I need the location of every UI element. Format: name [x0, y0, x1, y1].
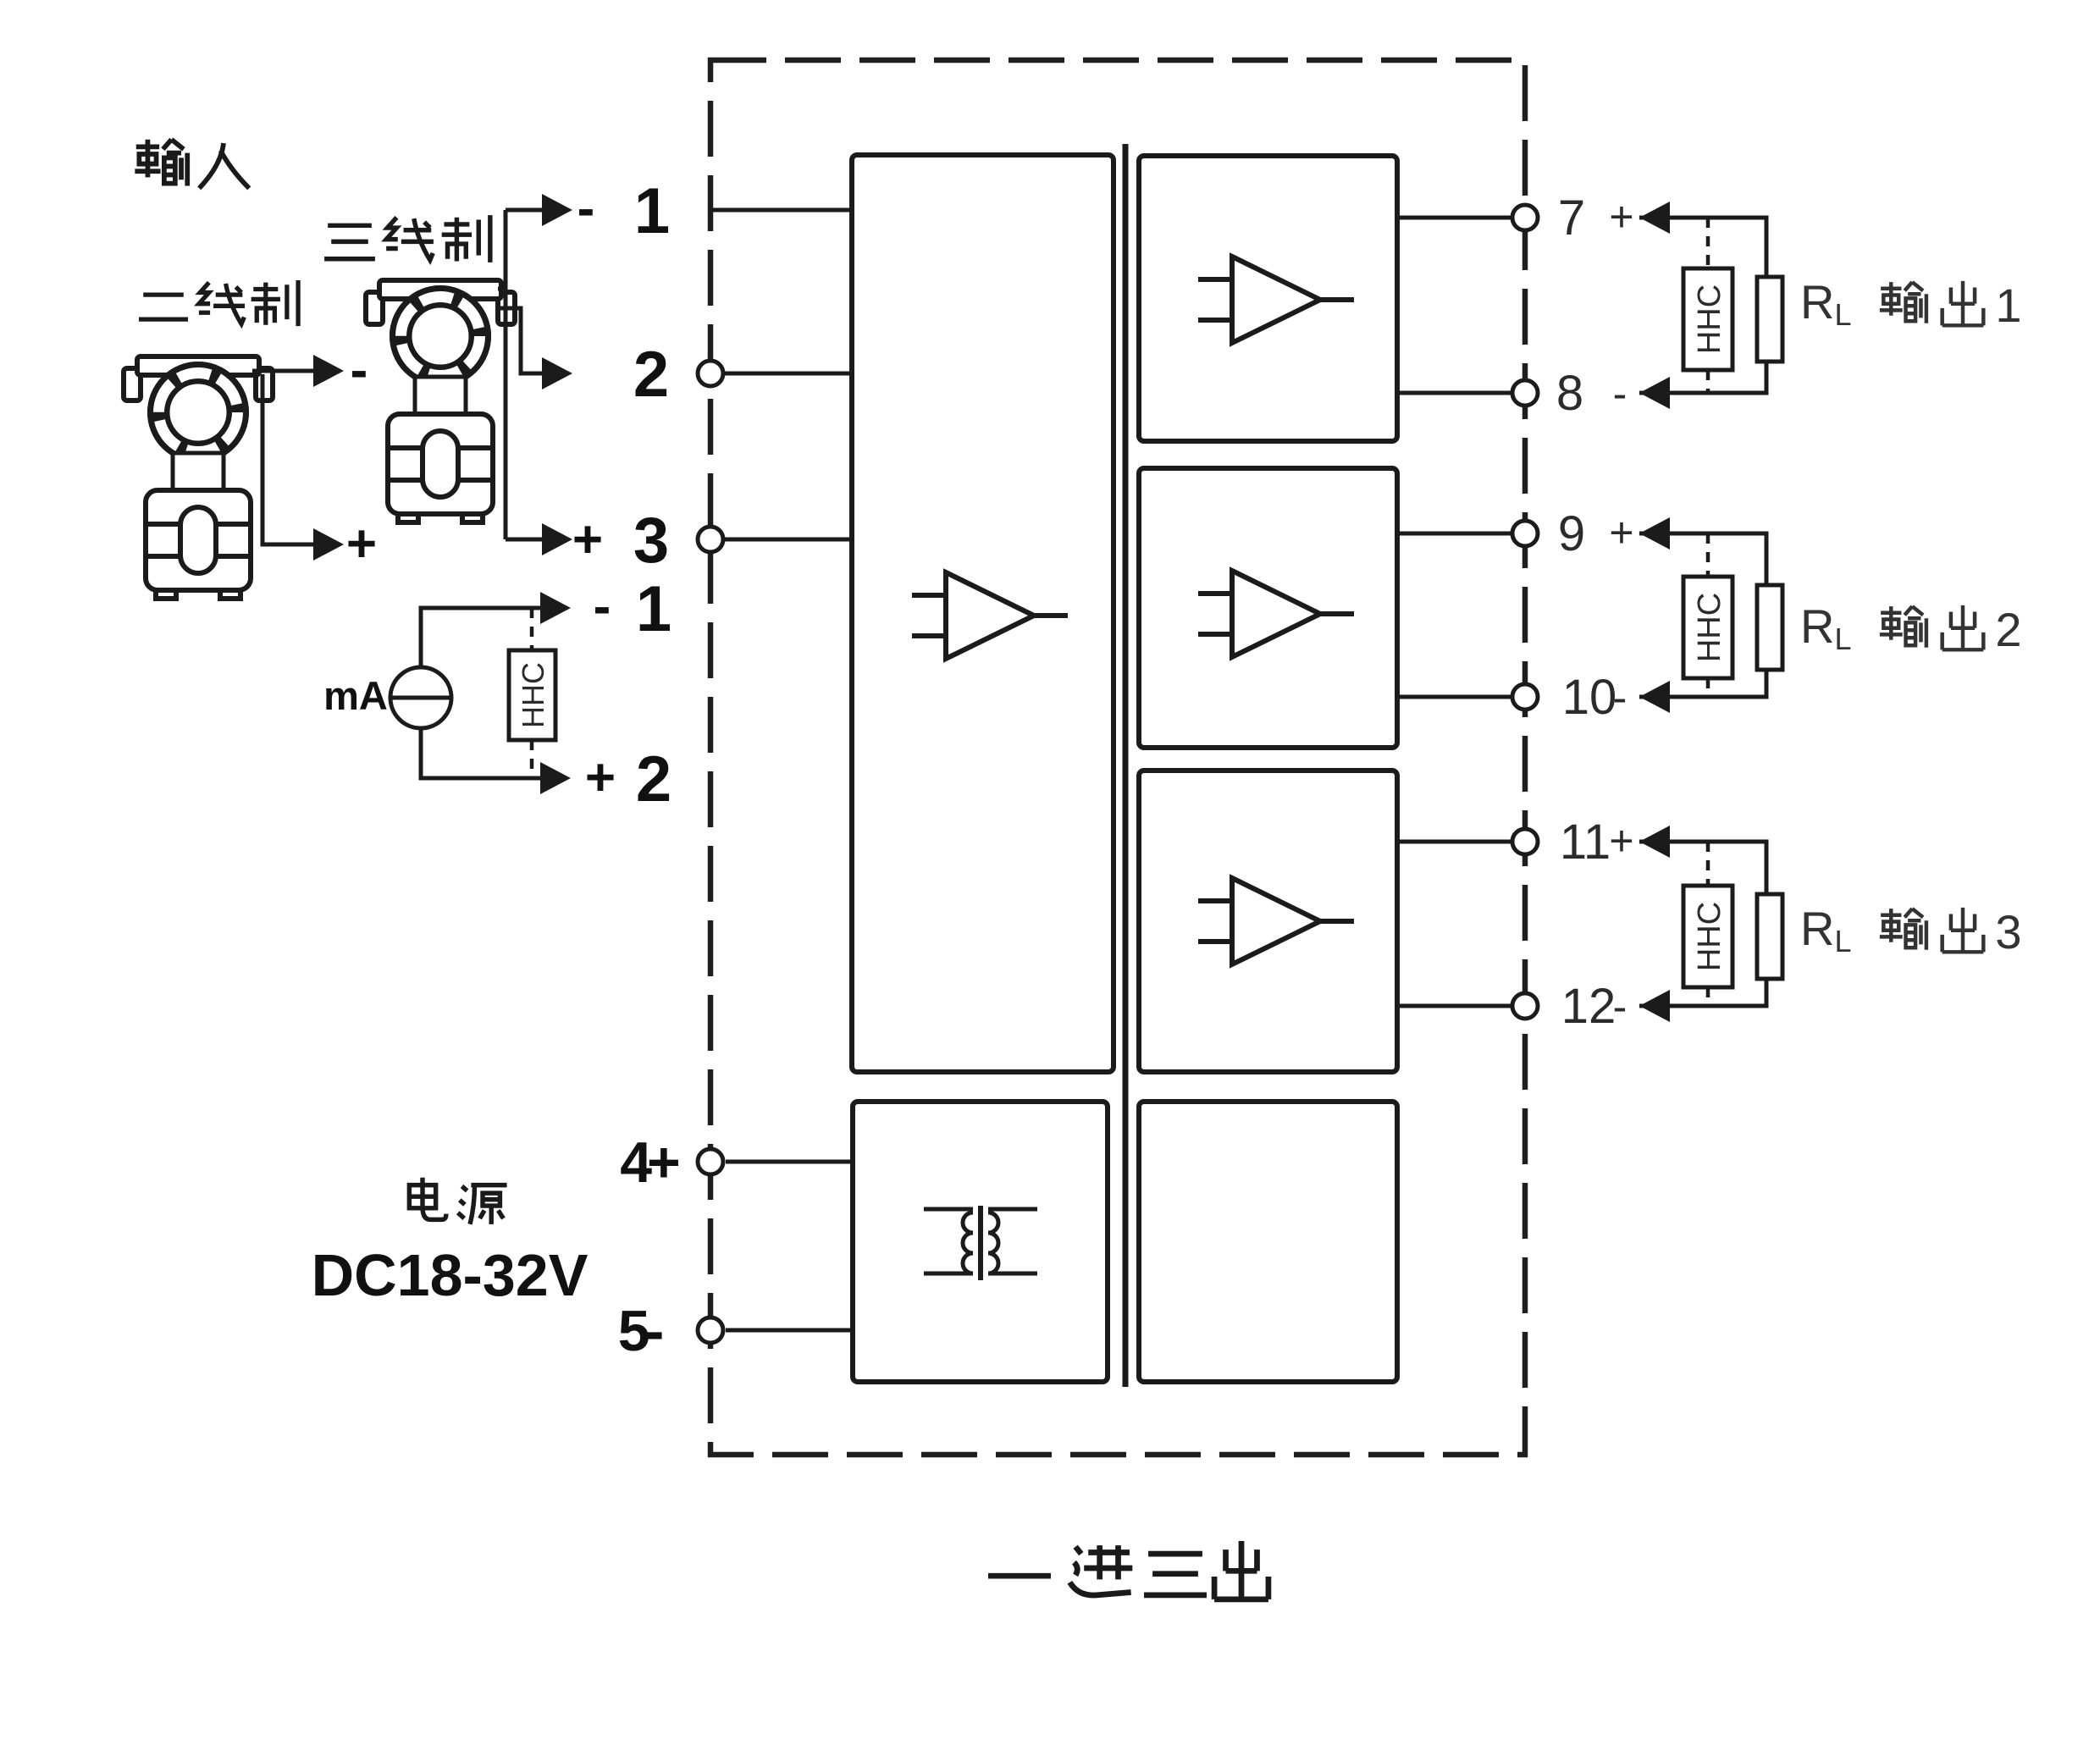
svg-text:5-: 5-: [618, 1299, 662, 1363]
svg-text:1: 1: [1995, 279, 2021, 332]
svg-text:-: -: [594, 577, 611, 636]
wire 2w plus: [262, 374, 315, 544]
terminal 5 circle: [698, 1317, 723, 1343]
svg-text:1: 1: [634, 175, 670, 247]
load loop output 2: [1639, 517, 1766, 713]
terminal 8 circle: [1512, 380, 1538, 406]
svg-text:2: 2: [633, 339, 669, 411]
label RL output1: [1800, 275, 2022, 332]
svg-text:HHC: HHC: [1692, 593, 1727, 662]
svg-text:3: 3: [633, 505, 669, 577]
svg-text:+: +: [346, 515, 377, 573]
svg-text:HHC: HHC: [1692, 284, 1727, 354]
svg-text:+: +: [1609, 817, 1633, 864]
transmitter 3-wire: [366, 280, 515, 522]
wire 3w to terminal 2: [498, 308, 542, 373]
svg-text:-: -: [577, 180, 595, 238]
svg-text:HHC: HHC: [516, 662, 550, 728]
mA source: [390, 667, 451, 728]
terminal 11 circle: [1512, 829, 1538, 854]
wire 2w minus: [252, 369, 315, 373]
HHC communicator box output 1: [1683, 268, 1732, 370]
dashed isolator boundary box: [710, 60, 1525, 1455]
svg-text:10: 10: [1562, 670, 1617, 725]
terminal 4 circle: [698, 1149, 723, 1174]
input conditioner block U1: [852, 155, 1114, 1072]
wire terminal 4 to power block: [726, 1160, 853, 1164]
transformer T1: [924, 1206, 1037, 1280]
svg-text:HHC: HHC: [1692, 902, 1727, 971]
label RL output2: [1800, 599, 2022, 656]
svg-text:RL: RL: [1800, 902, 1851, 958]
svg-text:4+: 4+: [620, 1130, 678, 1195]
svg-text:12: 12: [1561, 979, 1616, 1034]
svg-text:RL: RL: [1800, 275, 1851, 332]
load loop output 1: [1639, 202, 1766, 409]
wire mA to terminal +2: [421, 728, 542, 778]
label input 输入: [135, 140, 249, 189]
svg-text:+: +: [572, 511, 603, 569]
svg-text:8: 8: [1556, 366, 1583, 421]
op-amp U1 symbol: [912, 572, 1068, 659]
terminal 12 circle: [1512, 993, 1538, 1019]
svg-text:3: 3: [1995, 905, 2021, 958]
terminal 2 circle: [698, 361, 723, 386]
op-amp A2 symbol: [1198, 571, 1354, 657]
svg-text:2: 2: [636, 743, 671, 815]
output block A1: [1139, 156, 1397, 441]
svg-text:RL: RL: [1800, 599, 1851, 656]
HHC communicator box (input): [509, 608, 555, 778]
HHC communicator box output 3: [1683, 886, 1732, 987]
wire 3w to terminal 1: [498, 210, 542, 539]
label 3-wire 三线制: [324, 215, 490, 262]
load loop output 3: [1639, 826, 1766, 1022]
wire A3 to terminal 11: [1397, 840, 1512, 844]
terminal 7 circle: [1512, 205, 1538, 230]
label 2-wire 二线制: [139, 280, 298, 326]
wire terminal 5 to power block: [726, 1328, 853, 1333]
terminal 10 circle: [1512, 684, 1538, 710]
wire A2 to terminal 10: [1397, 695, 1512, 699]
output side power block: [1139, 1102, 1397, 1382]
svg-text:2: 2: [1995, 603, 2021, 656]
svg-text:+: +: [1609, 509, 1633, 556]
label RL output3: [1800, 902, 2022, 958]
svg-text:11: 11: [1560, 815, 1611, 870]
output block A3: [1139, 771, 1397, 1072]
wire mA to terminal -1: [421, 608, 542, 667]
op-amp A1 symbol: [1198, 257, 1354, 343]
svg-text:+: +: [1609, 193, 1633, 240]
HHC communicator box output 2: [1683, 577, 1732, 678]
svg-text:7: 7: [1558, 191, 1585, 246]
power supply block: [853, 1102, 1108, 1382]
transmitter 2-wire: [124, 356, 273, 599]
wire A1 to terminal 7: [1397, 216, 1512, 220]
label power 电源: [409, 1178, 506, 1224]
svg-text:mA: mA: [323, 673, 388, 718]
svg-text:-: -: [351, 341, 368, 400]
wire 3w to terminal 3: [506, 538, 542, 542]
wire terminal 3 to U1: [725, 538, 852, 542]
terminal 3 circle: [698, 527, 723, 552]
load resistor RL output 1: [1757, 277, 1782, 362]
wire terminal 2 to U1: [725, 372, 852, 376]
label bottom 一进三出: [988, 1541, 1268, 1599]
wire A3 to terminal 12: [1397, 1004, 1512, 1008]
output block A2: [1139, 468, 1397, 748]
svg-text:9: 9: [1558, 506, 1585, 561]
svg-text:+: +: [585, 748, 616, 807]
svg-text:-: -: [1613, 983, 1627, 1030]
terminal 9 circle: [1512, 521, 1538, 546]
svg-text:DC18-32V: DC18-32V: [312, 1242, 589, 1308]
svg-text:-: -: [1613, 370, 1627, 417]
svg-text:1: 1: [636, 573, 671, 645]
load resistor RL output 2: [1757, 585, 1782, 670]
isolation barrier lines: [1123, 144, 1129, 1387]
svg-text:-: -: [1613, 674, 1627, 721]
wire A1 to terminal 8: [1397, 391, 1512, 395]
wire terminal 1 to U1: [710, 208, 852, 213]
op-amp A3 symbol: [1198, 878, 1354, 964]
load resistor RL output 3: [1757, 894, 1782, 979]
wire A2 to terminal 9: [1397, 532, 1512, 536]
